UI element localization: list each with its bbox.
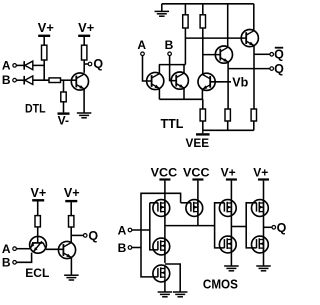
- wire T4 emitter down to R8: [227, 62, 229, 109]
- wire A to D1: [16, 64, 24, 66]
- wire R7 to VEE rail: [202, 121, 204, 130]
- wire V+ to R1: [43, 37, 45, 45]
- wire B input: [132, 247, 141, 249]
- svg-text:Q: Q: [93, 57, 103, 71]
- svg-text:V+: V+: [64, 186, 80, 200]
- wire V+ through M7/M8 column: [230, 181, 232, 254]
- svg-text:CMOS: CMOS: [203, 278, 238, 292]
- wire rail to R5: [184, 4, 186, 16]
- ground (TTL top): [155, 10, 170, 12]
- wire Q2 emitter to ground: [70, 258, 72, 276]
- terminal output Q (DTL): [88, 62, 92, 66]
- power V+ supply bar (DTL diode pull-up): [38, 35, 50, 37]
- resistor R8 (TTL pulldown Q): [225, 109, 230, 121]
- wire T5 emitter down to R9: [253, 46, 255, 110]
- svg-text:VCC: VCC: [151, 165, 178, 179]
- resistor R6 (TTL collector load 2): [200, 15, 205, 28]
- resistor R7 (TTL emitter): [200, 109, 205, 121]
- transistor T1 (TTL input A): [147, 72, 164, 89]
- resistor R5 (TTL collector load 1): [183, 15, 188, 28]
- wire common emitter line: [159, 98, 202, 100]
- wire R10 to M1 base: [37, 227, 39, 243]
- wire A gate bus: [150, 203, 158, 250]
- wire T2 collector up: [183, 65, 185, 74]
- svg-text:Vb: Vb: [232, 75, 248, 89]
- svg-text:A: A: [137, 38, 146, 52]
- transistor T5 (TTL emitter follower Qbar): [241, 29, 258, 46]
- svg-text:Q: Q: [274, 62, 284, 76]
- ground (CMOS g1): [158, 291, 173, 293]
- resistor R10 (ECL base pull-up): [35, 216, 40, 227]
- terminal input B (CMOS): [128, 246, 132, 250]
- wire Q1 emitter to ground: [83, 89, 85, 113]
- wire D1 to node: [33, 64, 44, 66]
- transistor M3 (PMOS gate B): [186, 200, 203, 217]
- resistor R4 (DTL collector load): [82, 45, 87, 60]
- svg-text:A: A: [2, 242, 11, 256]
- terminal output Q (CMOS): [272, 226, 276, 230]
- wire VEE rail: [203, 129, 254, 131]
- diode D2 (input B): [23, 76, 25, 85]
- wire R2 to Q1 base: [61, 79, 77, 81]
- svg-text:V+: V+: [253, 165, 268, 179]
- svg-text:TTL: TTL: [161, 117, 184, 131]
- svg-text:Q: Q: [277, 221, 287, 235]
- wire B bus to M3 gate: [181, 202, 191, 204]
- transistor T2 (TTL input B): [171, 72, 188, 89]
- wire M1 collector to Q2 base: [46, 248, 64, 250]
- svg-text:VCC: VCC: [183, 165, 210, 179]
- wire T3 base to Vb: [210, 81, 231, 83]
- svg-text:B: B: [165, 38, 174, 52]
- wire V+ to R4: [83, 37, 85, 45]
- wire Q tap (ECL): [71, 234, 83, 236]
- power VCC supply bar 1: [159, 178, 170, 180]
- transistor M1 (multi-emitter input): [30, 236, 47, 253]
- svg-text:V+: V+: [221, 165, 236, 179]
- power VCC supply bar 2: [192, 178, 203, 180]
- ground (DTL): [77, 112, 92, 114]
- svg-text:V+: V+: [31, 186, 47, 200]
- transistor M10 (NMOS inverter 2): [252, 236, 269, 253]
- wire VCC to M3: [197, 181, 199, 226]
- wire R3 to V-: [63, 102, 65, 113]
- wire T3 emitter down: [201, 89, 203, 99]
- svg-text:B: B: [118, 241, 127, 255]
- svg-text:Q: Q: [88, 229, 98, 243]
- wire V+ to R11: [70, 202, 72, 215]
- wire col4 gate bus: [246, 203, 256, 248]
- ground (CMOS g3): [224, 265, 239, 267]
- transistor M7 (PMOS inverter 1): [219, 200, 236, 217]
- svg-text:B: B: [2, 73, 11, 87]
- resistor R9 (TTL pulldown Qbar): [251, 109, 256, 121]
- wire T2 emitter down: [183, 88, 185, 100]
- wire T1 collector up: [158, 65, 160, 74]
- wire top rail (TTL ground rail): [162, 3, 254, 5]
- power V+ supply bar (ECL base pull-up): [32, 199, 44, 201]
- svg-text:V+: V+: [78, 21, 94, 35]
- wire B to D2: [16, 79, 24, 81]
- wire T1 emitter down: [158, 88, 160, 99]
- node N2 (inverter1 out): [231, 226, 246, 228]
- power V- supply bar: [58, 112, 70, 114]
- wire Q tap (TTL): [228, 68, 270, 70]
- wire R6 to T3 collector: [202, 28, 204, 74]
- terminal input A (CMOS): [128, 228, 132, 232]
- wire T4 base lead: [203, 54, 221, 56]
- wire A bus to M2 gate: [150, 202, 158, 204]
- transistor M9 (PMOS inverter 2): [252, 200, 269, 217]
- terminal output Q (TTL): [270, 67, 274, 71]
- resistor R11 (ECL collector load): [69, 216, 74, 227]
- wire R4 to Q1 collector: [83, 60, 85, 73]
- transistor Q2 (ECL output NPN): [58, 241, 75, 258]
- terminal output Q (ECL): [83, 234, 87, 238]
- wire D2 to node: [33, 79, 49, 81]
- svg-text:Q: Q: [274, 48, 284, 62]
- svg-text:V+: V+: [38, 21, 54, 35]
- wire A to M1 (ECL): [16, 248, 30, 250]
- svg-text:V-: V-: [58, 114, 69, 128]
- ground (ECL): [64, 274, 79, 276]
- resistor R2 (DTL base series): [49, 78, 61, 83]
- wire collector tie line: [159, 64, 186, 66]
- terminal output Qbar: [270, 53, 274, 57]
- resistor R3 (DTL pull-down to V-): [61, 92, 66, 102]
- wire B to T2 base: [170, 56, 177, 81]
- terminal input A: [13, 64, 17, 68]
- transistor M8 (NMOS inverter 1): [219, 236, 236, 253]
- wire A to T1 base: [143, 56, 152, 81]
- terminal input A (TTL): [141, 52, 145, 56]
- wire R8 to VEE rail: [227, 121, 229, 130]
- wire Qbar tap: [254, 53, 270, 55]
- wire B to M1 (ECL): [16, 253, 31, 263]
- terminal input B (TTL): [168, 52, 172, 56]
- transistor M6 (NMOS gate B): [153, 265, 170, 282]
- wire VCC to M2/M5/M6 column: [164, 181, 166, 263]
- svg-text:ECL: ECL: [25, 266, 49, 280]
- wire R9 to VEE rail: [253, 121, 255, 130]
- wire Q2 collector up: [70, 227, 72, 243]
- diode D1 (input A): [23, 61, 25, 70]
- power V+ supply bar (DTL collector): [78, 35, 90, 37]
- terminal input A (ECL): [13, 247, 17, 251]
- wire R1 to diode node: [43, 60, 45, 80]
- wire col3 gate bus: [215, 203, 225, 248]
- svg-text:A: A: [2, 59, 11, 73]
- svg-text:VEE: VEE: [186, 136, 210, 150]
- ground (CMOS g4): [256, 265, 271, 267]
- wire V+ through M9/M10 column: [263, 181, 265, 254]
- wire rail to ground: [161, 4, 163, 12]
- resistor R1 (DTL input pull-up): [42, 45, 47, 60]
- wire Q tap: [84, 63, 88, 65]
- ground (CMOS g2): [173, 291, 188, 293]
- wire M10 source stub: [263, 253, 265, 266]
- transistor M2 (PMOS gate A): [153, 200, 170, 217]
- power V+ supply bar 3: [226, 178, 237, 180]
- transistor T3 (TTL reference, mirrored): [198, 73, 215, 90]
- wire rail to R6: [202, 4, 204, 16]
- transistor T4 (TTL emitter follower Q): [215, 46, 232, 63]
- wire M8 source stub: [230, 253, 232, 266]
- wire R5 to collector tie: [184, 28, 186, 65]
- svg-text:DTL: DTL: [25, 102, 46, 116]
- power V+ supply bar 4: [258, 178, 269, 180]
- wire rail to T4 collector: [227, 4, 229, 47]
- wire A input: [132, 229, 150, 231]
- wire node to R3: [63, 80, 65, 92]
- wire B gate bus: [141, 193, 181, 277]
- node N1 (NAND output): [165, 225, 215, 227]
- wire T5 base lead: [185, 37, 246, 39]
- svg-text:B: B: [2, 256, 11, 270]
- svg-text:A: A: [118, 223, 127, 237]
- power V+ supply bar (ECL collector): [65, 200, 77, 202]
- transistor M5 (NMOS gate A): [153, 238, 170, 255]
- wire V+ to R10: [37, 201, 39, 215]
- power VEE supply bar: [202, 130, 204, 133]
- wire M6 source to ground: [164, 281, 166, 292]
- wire M5 source jog to ground: [165, 264, 180, 292]
- terminal input B (ECL): [13, 261, 17, 265]
- transistor Q1 (DTL NPN): [71, 73, 88, 90]
- terminal input B: [13, 78, 17, 82]
- wire rail to T5 collector: [253, 4, 255, 30]
- wire Q tap (CMOS): [264, 226, 272, 228]
- wire emitter node to R7: [202, 99, 204, 109]
